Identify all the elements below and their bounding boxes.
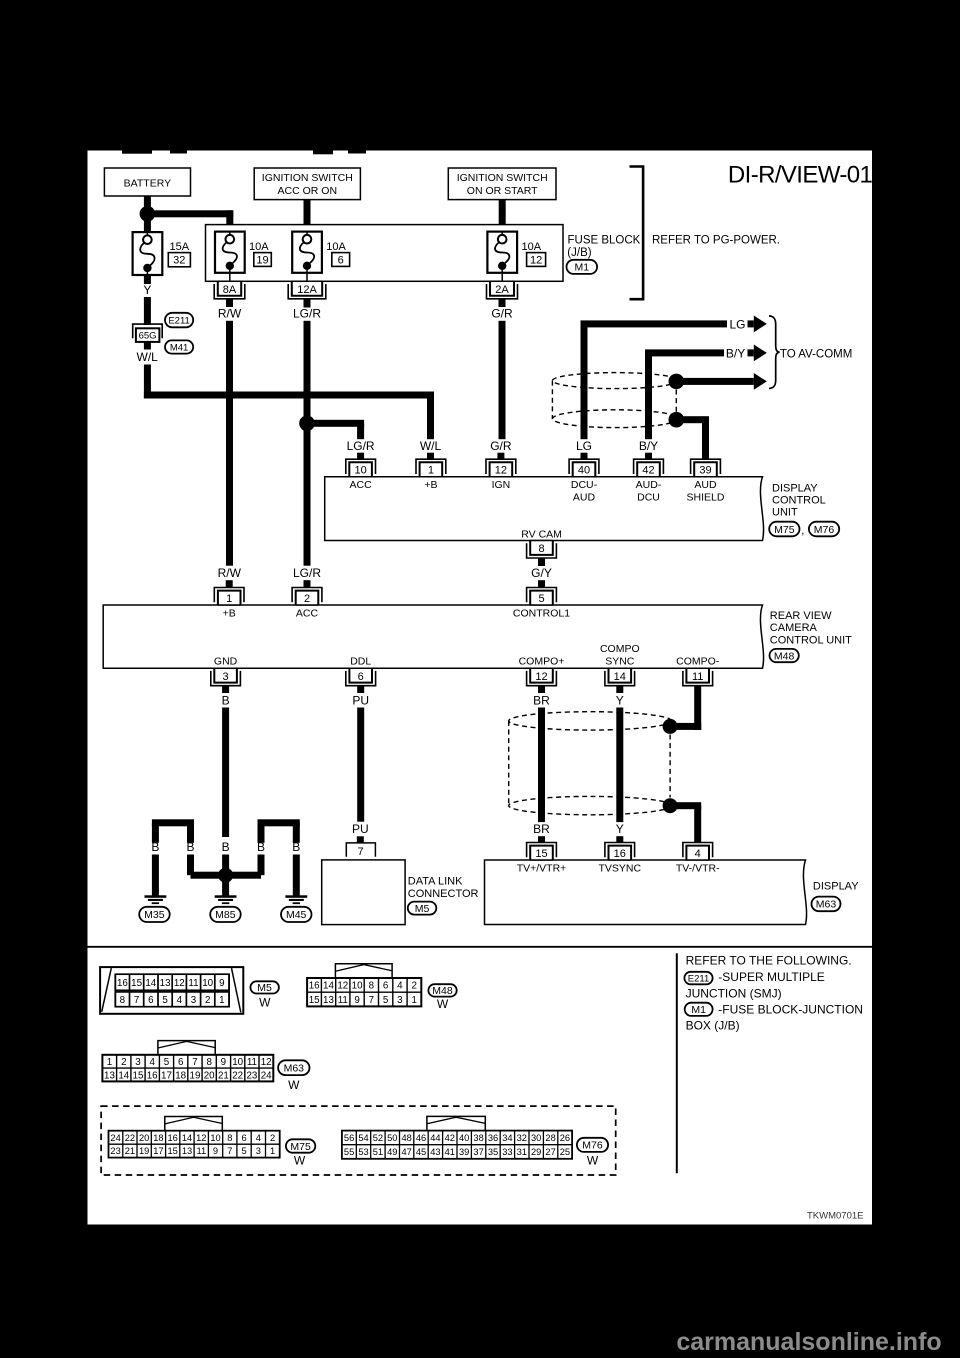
svg-text:LG/R: LG/R bbox=[293, 566, 321, 580]
svg-text:39: 39 bbox=[459, 1147, 469, 1157]
svg-text:DDL: DDL bbox=[350, 655, 371, 667]
connector ref M63 oval bbox=[812, 897, 841, 912]
svg-text:46: 46 bbox=[416, 1133, 426, 1143]
svg-text:6: 6 bbox=[338, 254, 344, 266]
svg-text:10A: 10A bbox=[522, 241, 542, 253]
wire W/L down and across to +B of display unit bbox=[144, 365, 434, 440]
svg-text:7: 7 bbox=[369, 995, 374, 1006]
svg-text:G/Y: G/Y bbox=[531, 566, 552, 580]
svg-text:20: 20 bbox=[204, 1070, 215, 1081]
svg-text:B: B bbox=[151, 840, 159, 854]
connector ref E211 oval (footer) bbox=[684, 972, 712, 985]
wire label PU (at connector) bbox=[352, 822, 369, 836]
scan artifact marks at top edge bbox=[122, 151, 366, 155]
fuse 32 15A (battery) bbox=[133, 232, 191, 275]
svg-text:30: 30 bbox=[531, 1133, 541, 1143]
svg-text:G/R: G/R bbox=[491, 306, 513, 320]
terminal 14 (COMPO SYNC) rear view bbox=[605, 668, 635, 686]
svg-text:W/L: W/L bbox=[420, 439, 442, 453]
wire shield to terminal 4 display bbox=[670, 802, 701, 843]
svg-text:AUD-: AUD- bbox=[636, 479, 662, 491]
connector ref M48 oval (view) bbox=[428, 984, 456, 1011]
svg-text:M5: M5 bbox=[257, 982, 272, 994]
svg-text:31: 31 bbox=[517, 1147, 527, 1157]
svg-text:R/W: R/W bbox=[218, 306, 242, 320]
wire stub above terminal 2 rear view bbox=[304, 580, 311, 587]
svg-text:M76: M76 bbox=[582, 1140, 603, 1152]
svg-text:IGNITION SWITCH: IGNITION SWITCH bbox=[262, 172, 353, 184]
terminal 2A bbox=[487, 281, 518, 299]
svg-text:M41: M41 bbox=[170, 342, 188, 353]
svg-text:8A: 8A bbox=[223, 284, 237, 296]
svg-text:BR: BR bbox=[533, 822, 550, 836]
svg-text:1: 1 bbox=[226, 593, 232, 605]
watermark carmanualsonline.info bbox=[676, 1328, 941, 1356]
svg-text:13: 13 bbox=[323, 995, 334, 1006]
wire stub under terminal 8 bbox=[538, 559, 545, 566]
svg-text:8: 8 bbox=[206, 1057, 212, 1068]
svg-text:-FUSE BLOCK-JUNCTION: -FUSE BLOCK-JUNCTION bbox=[718, 1002, 863, 1016]
svg-text:44: 44 bbox=[430, 1133, 440, 1143]
svg-text:55: 55 bbox=[344, 1147, 354, 1157]
connector M63 view bbox=[102, 1041, 273, 1082]
svg-text:10: 10 bbox=[352, 981, 363, 992]
svg-text:10A: 10A bbox=[326, 241, 346, 253]
svg-text:14: 14 bbox=[323, 981, 334, 992]
svg-text:10: 10 bbox=[232, 1057, 243, 1068]
wire G/R from 2A to display IGN bbox=[499, 321, 506, 439]
svg-text:7: 7 bbox=[227, 1146, 232, 1156]
svg-text:TV-/VTR-: TV-/VTR- bbox=[676, 863, 720, 875]
svg-text:45: 45 bbox=[416, 1147, 426, 1157]
arrow shield drain to AV-COMM bbox=[676, 373, 767, 390]
svg-text:16: 16 bbox=[147, 1070, 158, 1081]
wire labels B row bbox=[151, 840, 300, 854]
wire label B/Y (inline) bbox=[726, 347, 745, 361]
svg-text:W: W bbox=[288, 1078, 300, 1092]
terminal 8 (RV CAM) display bbox=[527, 541, 557, 559]
svg-text:1: 1 bbox=[107, 1057, 112, 1068]
svg-text:32: 32 bbox=[173, 255, 185, 267]
svg-text:18: 18 bbox=[175, 1070, 186, 1081]
svg-text:DATA LINK: DATA LINK bbox=[408, 875, 463, 887]
fuse block label and M1 bbox=[567, 234, 641, 274]
wire label B (GND) bbox=[222, 693, 230, 707]
svg-text:4: 4 bbox=[695, 848, 701, 860]
terminal 3 (GND) rear view bbox=[211, 668, 241, 686]
terminal 4 (TV-/VTR-) display bbox=[683, 843, 713, 861]
svg-text:2: 2 bbox=[205, 995, 210, 1006]
svg-text:B: B bbox=[186, 840, 194, 854]
svg-text:-SUPER MULTIPLE: -SUPER MULTIPLE bbox=[718, 970, 824, 984]
svg-text:42: 42 bbox=[642, 465, 654, 477]
svg-text:7: 7 bbox=[357, 846, 363, 858]
ignition switch ON OR START box bbox=[448, 168, 556, 200]
svg-text:1: 1 bbox=[411, 995, 416, 1006]
svg-text:16: 16 bbox=[168, 1133, 178, 1143]
wire label Y bbox=[143, 283, 151, 297]
svg-text:1: 1 bbox=[270, 1146, 275, 1156]
wire label BR (at display) bbox=[533, 822, 550, 836]
svg-text:21: 21 bbox=[125, 1146, 135, 1156]
wire stub above terminal 1 rear view bbox=[226, 580, 233, 587]
svg-text:2: 2 bbox=[121, 1057, 126, 1068]
connector ref M48 oval bbox=[770, 649, 799, 662]
svg-text:11: 11 bbox=[196, 1146, 206, 1156]
svg-text:14: 14 bbox=[614, 671, 626, 683]
connector ref M1 oval (footer) bbox=[685, 1003, 713, 1016]
svg-text:DCU-: DCU- bbox=[571, 479, 598, 491]
svg-text:12: 12 bbox=[535, 671, 547, 683]
svg-text:RV CAM: RV CAM bbox=[521, 528, 562, 540]
terminal 5 (CONTROL1) rear view bbox=[527, 588, 557, 606]
svg-text:PU: PU bbox=[352, 693, 369, 707]
svg-text:13: 13 bbox=[182, 1146, 192, 1156]
connector ref E211 bbox=[165, 313, 193, 328]
footer note fuse block bbox=[686, 1002, 863, 1032]
svg-text:CONTROL1: CONTROL1 bbox=[513, 608, 570, 620]
svg-text:DISPLAY: DISPLAY bbox=[813, 880, 859, 892]
svg-text:SYNC: SYNC bbox=[605, 655, 635, 667]
figure code TKWM0701E bbox=[807, 1210, 864, 1221]
svg-text:9: 9 bbox=[354, 995, 359, 1006]
svg-text:20: 20 bbox=[139, 1133, 149, 1143]
dashed shield link COMPO- bbox=[669, 735, 671, 798]
connector ref M41 bbox=[165, 340, 193, 353]
connector ref M63 oval (view) bbox=[278, 1060, 309, 1092]
svg-text:22: 22 bbox=[125, 1133, 135, 1143]
svg-text:W: W bbox=[259, 995, 271, 1009]
wire label B/Y (at terminal 42) bbox=[639, 439, 658, 453]
svg-text:19: 19 bbox=[190, 1070, 201, 1081]
ignition switch ACC OR ON box bbox=[254, 168, 360, 200]
rear view camera control unit name bbox=[770, 610, 852, 646]
svg-text:6: 6 bbox=[358, 671, 364, 683]
svg-text:4: 4 bbox=[177, 995, 183, 1006]
svg-text:COMPO-: COMPO- bbox=[676, 655, 720, 667]
terminal 11 (COMPO-) rear view bbox=[683, 668, 713, 686]
junction dot on LG/R wire bbox=[299, 416, 315, 432]
svg-text:M45: M45 bbox=[286, 909, 307, 921]
wire COMPO- to shield dot bbox=[670, 686, 701, 730]
svg-text:CONTROL UNIT: CONTROL UNIT bbox=[770, 634, 852, 646]
svg-text:W: W bbox=[437, 997, 449, 1011]
wire label G/Y bbox=[531, 566, 552, 580]
wire stub above terminal 15 bbox=[538, 836, 545, 843]
terminal 16 (TVSYNC) display bbox=[605, 843, 635, 861]
wire label LG/R (at display ACC) bbox=[347, 439, 375, 453]
ground symbol M85 bbox=[215, 895, 237, 904]
wire stub under 2A bbox=[499, 299, 506, 307]
connector ref M5 oval (view) bbox=[250, 981, 279, 1009]
svg-text:3: 3 bbox=[256, 1146, 261, 1156]
svg-text:BR: BR bbox=[533, 693, 550, 707]
svg-text:15: 15 bbox=[133, 1070, 144, 1081]
svg-text:56: 56 bbox=[344, 1133, 354, 1143]
svg-text:21: 21 bbox=[218, 1070, 229, 1081]
svg-text:M48: M48 bbox=[774, 650, 795, 662]
junction dot below battery bbox=[140, 206, 156, 222]
svg-text:13: 13 bbox=[104, 1070, 115, 1081]
terminal 12 (IGN) display bbox=[486, 459, 516, 477]
svg-text:9: 9 bbox=[213, 1146, 218, 1156]
svg-text:12A: 12A bbox=[297, 284, 317, 296]
svg-text:ON OR START: ON OR START bbox=[467, 185, 538, 197]
svg-text:M5: M5 bbox=[415, 903, 430, 915]
svg-text:10: 10 bbox=[210, 1133, 220, 1143]
svg-text:1: 1 bbox=[428, 465, 434, 477]
svg-text:M35: M35 bbox=[144, 909, 165, 921]
svg-text:M63: M63 bbox=[284, 1063, 305, 1075]
svg-text:12: 12 bbox=[495, 465, 507, 477]
data link connector box bbox=[322, 860, 405, 925]
svg-text:24: 24 bbox=[110, 1133, 120, 1143]
brace to AV-COMM bbox=[769, 316, 780, 389]
fuse 19 10A bbox=[215, 232, 271, 282]
svg-text:CAMERA: CAMERA bbox=[770, 622, 818, 634]
wire stub under 12A bbox=[304, 299, 311, 307]
connector 65G (SMJ) bbox=[133, 324, 163, 342]
connector M48 view bbox=[307, 964, 421, 1007]
svg-text:42: 42 bbox=[445, 1133, 455, 1143]
svg-text:15A: 15A bbox=[170, 241, 190, 253]
display control unit name bbox=[772, 482, 826, 518]
svg-text:REAR VIEW: REAR VIEW bbox=[770, 610, 832, 622]
svg-text:+B: +B bbox=[223, 608, 236, 620]
svg-text:REFER TO PG-POWER.: REFER TO PG-POWER. bbox=[652, 234, 780, 246]
wire Y from COMPO SYNC to display TVSYNC bbox=[616, 708, 623, 823]
svg-text:BOX (J/B): BOX (J/B) bbox=[686, 1019, 740, 1033]
svg-text:Y: Y bbox=[143, 283, 151, 297]
svg-text:13: 13 bbox=[160, 978, 171, 989]
svg-text:5: 5 bbox=[242, 1146, 247, 1156]
svg-text:9: 9 bbox=[221, 1057, 226, 1068]
svg-text:3: 3 bbox=[397, 995, 403, 1006]
svg-text:DCU: DCU bbox=[637, 492, 660, 504]
wire stub above terminal 40 bbox=[581, 453, 588, 460]
svg-text:10: 10 bbox=[354, 465, 366, 477]
svg-text:R/W: R/W bbox=[218, 566, 242, 580]
wire label PU (DDL) bbox=[352, 693, 369, 707]
wire label R/W (at rear view +B) bbox=[218, 566, 242, 580]
svg-text:14: 14 bbox=[182, 1133, 192, 1143]
svg-text:26: 26 bbox=[560, 1133, 570, 1143]
connector ref M76 oval bbox=[809, 522, 839, 537]
ground ref M45 oval bbox=[281, 907, 312, 922]
svg-text:18: 18 bbox=[153, 1133, 163, 1143]
wire shield drain to terminal 39 bbox=[676, 416, 709, 459]
svg-text:6: 6 bbox=[178, 1057, 184, 1068]
svg-text:E211: E211 bbox=[168, 316, 189, 327]
svg-text:M63: M63 bbox=[816, 899, 837, 911]
ground ref M85 oval bbox=[210, 907, 241, 922]
battery box bbox=[104, 168, 190, 196]
pin labels rear view bottom bbox=[214, 643, 720, 668]
wire stub above terminal 5 bbox=[538, 580, 545, 587]
wire B/Y from AV-COMM to display AUD-DCU bbox=[645, 349, 724, 439]
svg-text:16: 16 bbox=[309, 981, 320, 992]
wire PU down to data link connector bbox=[357, 708, 364, 822]
terminal 12 (COMPO+) rear view bbox=[527, 668, 557, 686]
arrow B/Y to AV-COMM bbox=[748, 345, 767, 362]
svg-text:19: 19 bbox=[139, 1146, 149, 1156]
svg-text:12: 12 bbox=[196, 1133, 206, 1143]
terminal 42 (AUD-DCU) display bbox=[634, 459, 664, 477]
svg-text:PU: PU bbox=[352, 822, 369, 836]
label RV CAM bbox=[521, 528, 562, 540]
svg-text:15: 15 bbox=[535, 848, 547, 860]
wire stub above terminal 42 bbox=[645, 453, 652, 460]
svg-text:CONNECTOR: CONNECTOR bbox=[408, 888, 479, 900]
svg-text:8: 8 bbox=[120, 995, 126, 1006]
svg-text:2: 2 bbox=[270, 1133, 275, 1143]
svg-text:5: 5 bbox=[162, 995, 168, 1006]
svg-text:33: 33 bbox=[502, 1147, 512, 1157]
svg-text:34: 34 bbox=[502, 1133, 512, 1143]
ground bus lower segments bbox=[152, 855, 300, 896]
pin labels display bbox=[517, 863, 720, 875]
svg-text:6: 6 bbox=[148, 995, 154, 1006]
svg-text:40: 40 bbox=[459, 1133, 469, 1143]
svg-text:40: 40 bbox=[578, 465, 590, 477]
terminal 7 data link connector bbox=[346, 843, 375, 858]
svg-text:,: , bbox=[801, 525, 804, 537]
svg-text:11: 11 bbox=[188, 978, 198, 989]
terminal 39 (AUD SHIELD) display bbox=[691, 459, 721, 477]
svg-text:16: 16 bbox=[614, 848, 626, 860]
svg-text:36: 36 bbox=[488, 1133, 498, 1143]
svg-text:+B: +B bbox=[424, 479, 437, 491]
wire label Y (COMPO SYNC) bbox=[616, 693, 624, 707]
svg-text:14: 14 bbox=[118, 1070, 129, 1081]
terminal 10 (ACC) display bbox=[346, 459, 376, 477]
svg-text:23: 23 bbox=[246, 1070, 257, 1081]
svg-text:FUSE BLOCK: FUSE BLOCK bbox=[568, 234, 641, 246]
terminal 8A bbox=[214, 281, 245, 307]
comma between M75 M76 bbox=[801, 525, 804, 537]
svg-text:23: 23 bbox=[110, 1146, 120, 1156]
svg-text:5: 5 bbox=[383, 995, 389, 1006]
svg-text:M1: M1 bbox=[691, 1004, 706, 1016]
ground bus left top bbox=[152, 819, 194, 843]
svg-text:11: 11 bbox=[247, 1057, 257, 1068]
svg-text:3: 3 bbox=[135, 1057, 141, 1068]
wire stub under terminal 14 bbox=[616, 686, 623, 693]
svg-text:4: 4 bbox=[256, 1133, 261, 1143]
ground ref M35 oval bbox=[139, 907, 170, 922]
svg-text:DI-R/VIEW-01: DI-R/VIEW-01 bbox=[728, 162, 873, 189]
svg-text:12: 12 bbox=[261, 1057, 272, 1068]
svg-text:4: 4 bbox=[397, 981, 403, 992]
wire stub under terminal 3 bbox=[222, 686, 229, 693]
svg-text:carmanualsonline.info: carmanualsonline.info bbox=[676, 1328, 941, 1356]
svg-text:B: B bbox=[222, 693, 230, 707]
svg-text:2: 2 bbox=[411, 981, 416, 992]
svg-text:W/L: W/L bbox=[137, 350, 159, 364]
svg-text:1: 1 bbox=[219, 995, 224, 1006]
terminal 1 (+B) rear view bbox=[214, 588, 244, 606]
svg-text:IGN: IGN bbox=[492, 479, 511, 491]
svg-text:IGNITION SWITCH: IGNITION SWITCH bbox=[457, 172, 548, 184]
wire LG from AV-COMM to display DCU-AUD bbox=[581, 320, 728, 439]
svg-text:8: 8 bbox=[369, 981, 375, 992]
svg-text:TKWM0701E: TKWM0701E bbox=[807, 1210, 864, 1221]
wire label LG (inline) bbox=[730, 318, 746, 332]
svg-text:5: 5 bbox=[164, 1057, 170, 1068]
svg-text:51: 51 bbox=[373, 1147, 383, 1157]
terminal 12A bbox=[288, 281, 326, 307]
svg-text:41: 41 bbox=[445, 1147, 455, 1157]
svg-text:19: 19 bbox=[256, 254, 268, 266]
refer to the following text bbox=[686, 954, 852, 968]
vertical divider line bbox=[676, 953, 678, 1173]
svg-text:11: 11 bbox=[692, 671, 703, 683]
fuse 12 10A bbox=[487, 232, 545, 282]
svg-text:ACC OR ON: ACC OR ON bbox=[278, 185, 338, 197]
svg-text:B: B bbox=[292, 840, 300, 854]
svg-text:AUD: AUD bbox=[573, 492, 596, 504]
ground junction dot bbox=[218, 868, 233, 883]
wire ignition START to fuse 12 bbox=[499, 200, 506, 225]
wire R/W from 8A to rear view unit +B bbox=[226, 321, 233, 566]
svg-text:11: 11 bbox=[338, 995, 348, 1006]
svg-text:SHIELD: SHIELD bbox=[687, 492, 725, 504]
wire stub above terminal 12 display bbox=[497, 453, 504, 460]
display control unit box bbox=[325, 477, 764, 541]
svg-text:54: 54 bbox=[358, 1133, 368, 1143]
wire to ground M85 bbox=[222, 875, 229, 895]
bracket for fuse block bbox=[630, 167, 644, 300]
ground bus right top bbox=[258, 819, 300, 843]
wire BR from COMPO+ to display TV+/VTR+ bbox=[538, 708, 545, 823]
svg-text:6: 6 bbox=[242, 1133, 247, 1143]
wire stub under terminal 6 bbox=[357, 686, 364, 693]
svg-text:4: 4 bbox=[149, 1057, 155, 1068]
svg-text:TO AV-COMM: TO AV-COMM bbox=[780, 349, 852, 361]
connector ref M75 oval (view) bbox=[286, 1139, 315, 1167]
svg-text:6: 6 bbox=[383, 981, 389, 992]
shield drain junction dot (bottom) bbox=[669, 412, 685, 428]
svg-text:7: 7 bbox=[134, 995, 139, 1006]
wire ignition ACC to fuse 6 bbox=[304, 200, 311, 225]
svg-text:49: 49 bbox=[387, 1147, 397, 1157]
svg-text:UNIT: UNIT bbox=[772, 507, 798, 519]
dashed shield link between dots bbox=[675, 390, 677, 413]
svg-text:17: 17 bbox=[161, 1070, 172, 1081]
svg-text:LG: LG bbox=[576, 439, 592, 453]
svg-text:8: 8 bbox=[538, 543, 544, 555]
svg-text:W: W bbox=[587, 1154, 599, 1168]
svg-text:G/R: G/R bbox=[490, 439, 512, 453]
svg-text:(J/B): (J/B) bbox=[567, 247, 591, 259]
shield cylinder around LG and B/Y bbox=[552, 373, 678, 428]
svg-text:ACC: ACC bbox=[350, 479, 373, 491]
svg-text:12: 12 bbox=[337, 981, 348, 992]
svg-text:Y: Y bbox=[616, 693, 624, 707]
footer note SMJ bbox=[686, 970, 825, 1000]
svg-text:W: W bbox=[294, 1154, 306, 1168]
svg-text:24: 24 bbox=[261, 1070, 272, 1081]
fuse block (J/B) box bbox=[206, 225, 564, 282]
svg-text:32: 32 bbox=[517, 1133, 527, 1143]
svg-text:28: 28 bbox=[545, 1133, 555, 1143]
fuse 6 10A bbox=[292, 232, 349, 282]
svg-text:M48: M48 bbox=[432, 985, 453, 997]
wire label R/W (8A) bbox=[218, 306, 242, 320]
wire B from GND down bbox=[222, 708, 229, 838]
svg-text:3: 3 bbox=[191, 995, 197, 1006]
wire stub under terminal 12 bbox=[538, 686, 545, 693]
